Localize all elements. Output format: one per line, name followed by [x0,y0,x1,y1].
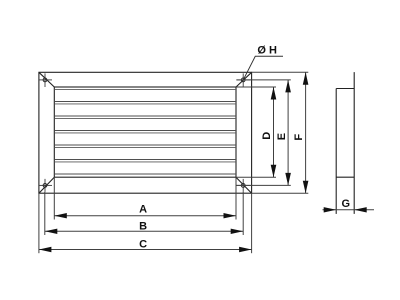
screw hole top-right [236,73,250,87]
dimension B extension line right [242,192,244,235]
dimension B line with arrows [45,229,243,234]
svg-text:D: D [261,132,273,140]
dimension E line with arrows [285,80,291,185]
louver blade 1 [54,102,236,104]
dimension D extension line bottom [236,176,276,178]
screw hole top-left [39,73,52,87]
dimension C extension line left [38,193,40,253]
dimension D line with arrows [271,87,277,177]
mitre line top-right corner [236,72,252,87]
dimension B extension line left [44,192,46,235]
side view frame body top edge [336,88,354,90]
dimension G line with inward arrows [323,207,375,212]
side view frame body bottom edge [336,176,354,178]
dimension F extension line top [252,71,309,73]
dimension C line with arrows [39,247,252,252]
leader line for hole diameter H [244,56,283,79]
dimension D extension line top [236,86,276,88]
screw hole bottom-left [39,179,52,192]
mitre line top-left corner [39,72,54,87]
louver blade 2 [54,116,236,118]
svg-text:B: B [139,221,147,233]
svg-text:Ø H: Ø H [257,45,277,57]
louver blade 3 [54,131,236,133]
louver blade 4 [54,145,236,147]
svg-text:F: F [293,134,305,141]
louver blade 5 [54,160,236,162]
louver shadow line below inner top edge [54,88,236,90]
svg-text:C: C [139,239,147,251]
dimension E extension line top [236,79,290,81]
inner frame of grille front view [54,87,236,177]
outer frame of grille front view [39,72,252,193]
side view flange line [353,72,355,214]
dimension E extension line bottom [236,184,290,186]
screw hole bottom-right [236,179,250,192]
svg-text:A: A [139,203,147,215]
dimension C extension line right [251,193,253,253]
mitre line bottom-left corner [39,177,54,193]
mitre line bottom-right corner [236,177,252,193]
side view frame body left edge [335,89,337,214]
svg-text:E: E [276,133,288,140]
dimension A extension line left [53,177,55,219]
dimension F line with arrows [303,72,309,193]
dimension A line with arrows [54,213,236,218]
louver blade 6 [54,173,236,175]
svg-text:G: G [342,198,351,210]
dimension F extension line bottom [252,192,309,194]
dimension A extension line right [235,177,237,219]
